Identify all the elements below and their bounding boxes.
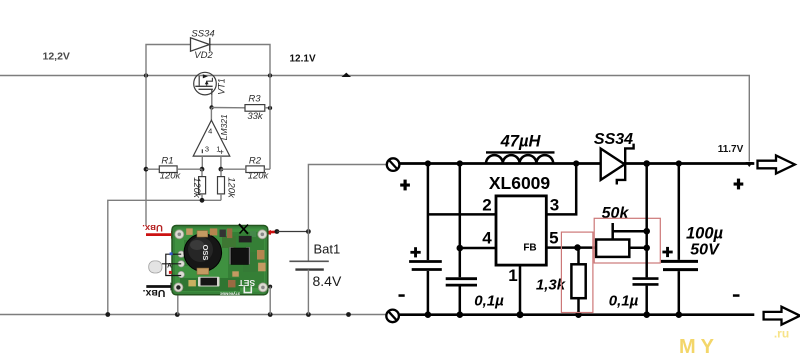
PCB left edge pads [178,251,184,278]
svg-text:Uвх.: Uвх. [143,287,166,299]
watermark MY [679,336,719,358]
node cap B bottom dot [457,311,464,318]
svg-text:R1: R1 [161,155,173,166]
wire left column [145,76,147,226]
resistor R1 [159,166,177,173]
node pin1 ground dot [517,311,524,318]
capacitor 0,1u second [633,164,659,319]
RIGHT-SECTION (thick black) [386,131,800,325]
PCB IC chip [230,236,252,265]
svg-text:5: 5 [549,229,558,248]
label minus output [733,294,740,297]
label 11.7V [718,144,744,155]
PCB tan component above toroid [197,231,208,237]
resistor R3 [245,105,265,112]
node 50k junction dots [643,228,650,251]
wire opamp output to node [210,108,212,121]
wire opamp input stubs [202,156,221,169]
svg-text:0,1µ: 0,1µ [474,293,504,310]
resistor 120k vertical A [199,169,206,200]
wire R1 left lead [146,168,159,170]
label R1 [161,155,173,166]
wire top rail thick [399,162,754,165]
label 47uH underline [486,151,555,153]
label VD2 [194,50,213,61]
label minus input [399,294,405,297]
label LM321 [219,114,229,140]
PCB pad bottom-left [174,283,183,292]
PCB SET label rotated [238,278,255,293]
connector input plus [387,158,400,171]
output arrow minus [764,307,800,325]
svg-text:SS34: SS34 [191,29,214,40]
svg-text:50k: 50k [602,205,630,222]
svg-text:8.4V: 8.4V [313,273,342,289]
svg-text:4: 4 [482,229,492,248]
label plus input [219,146,224,156]
node junction dot R3/column [268,106,272,110]
PCB pad top-right [258,230,267,239]
label R2 [249,155,262,166]
svg-text:50V: 50V [690,242,720,259]
label pin 1 [216,144,220,153]
PCB micro text [219,292,240,297]
PCB board [172,226,268,295]
op-amp LM321 triangle [193,120,230,156]
label SS34 [191,29,214,40]
node R1 junction dot [144,167,149,172]
label 12,2V [43,51,70,63]
resistor 120k vertical B [218,169,225,200]
label pin 3 [205,144,209,153]
label Bat1 [314,242,341,257]
label Uvx red (rotated) [142,222,163,233]
svg-text:Bat1: Bat1 [314,242,341,257]
red marking box 1,3k [561,232,593,312]
label 50V [690,242,720,259]
PCB bottom black inductor [198,277,220,287]
LED component [149,252,182,275]
PCB toroid inductor [184,234,222,272]
label pin2 [482,196,491,215]
wire R1 right lead [177,168,202,170]
op IC XL6009 box [496,196,546,265]
label VT1 [217,78,227,95]
label Uvx black (rotated) [143,287,166,299]
resistor R2 [246,166,264,173]
label XL6009 [489,173,551,193]
label 33k [247,111,264,122]
label pin 4 [208,127,212,136]
svg-text:SS34: SS34 [594,131,633,148]
wire pin3 [546,164,576,215]
node cap A bottom dot [425,311,432,318]
LEFT-SECTION (thin gray) [0,29,753,317]
svg-text:0,1µ: 0,1µ [609,293,639,310]
svg-text:FB: FB [523,243,536,254]
label plus input [400,180,410,191]
PCB X mark [239,224,248,234]
wire resistor bottoms to ground drop [108,200,221,314]
wire bottom ground rail thin [0,314,387,316]
battery Bat1 [289,261,328,314]
node small triangle marker on rail x346 [342,73,352,77]
PCB MODULE PHOTO [149,224,268,297]
label SS34 output [594,131,633,148]
node dot resistor A bottom [200,198,205,203]
svg-text:VD2: VD2 [194,50,213,61]
capacitor 0,1u first (line B) [446,164,477,315]
svg-text:120k: 120k [160,170,182,181]
wire R3 to right column [265,107,270,109]
label 47uH [500,132,542,150]
connector input minus [386,310,399,323]
svg-text:+: + [219,146,224,156]
resistor 50k trimmer [596,223,647,257]
wire node to R3 [212,107,245,109]
svg-text:3: 3 [205,144,209,153]
label 120k vertical A [191,177,202,199]
label pin1 [508,266,517,285]
label pin3 [550,196,559,215]
svg-text:SET: SET [238,278,255,288]
svg-text:OSS: OSS [201,245,210,261]
svg-text:12,2V: 12,2V [43,51,70,63]
svg-text:.ru: .ru [774,327,789,341]
wire mosfet drain to node [211,95,213,108]
svg-text:A: A [167,262,172,269]
wire right column [269,76,271,170]
svg-text:11.7V: 11.7V [718,144,744,155]
label 0,1u second [609,293,639,310]
wire black input arrow [146,283,179,291]
svg-text:2: 2 [482,196,491,215]
svg-text:12.1V: 12.1V [290,53,316,64]
node input dots [200,167,224,172]
svg-text:120k: 120k [226,177,237,199]
svg-text:LM321: LM321 [219,114,229,140]
svg-text:Uвх.: Uвх. [142,222,163,233]
svg-text:R2: R2 [249,155,262,166]
capacitor 100u 50V [661,164,698,319]
label pin5 [549,229,558,248]
node junction dot on rail x270 [268,73,272,77]
wire pin1 [519,265,522,315]
red marking box 50k [594,218,660,263]
label minus input tick [201,149,203,153]
label 0,1u first [474,293,504,310]
node dot pad wire [275,229,280,234]
svg-text:47µH: 47µH [500,132,542,150]
node pin4 junction dot [457,245,464,252]
resistor 1,3k [571,244,585,318]
svg-text:120k: 120k [248,170,270,181]
svg-text:зтукемвс: зтукемвс [219,292,240,297]
diode VD2 (SS34) [191,38,210,51]
svg-text:XL6009: XL6009 [489,173,551,193]
svg-text:4: 4 [208,127,212,136]
wire PCB top-right pad red stub [262,230,277,235]
label 50k [602,205,630,222]
watermark .ru [774,327,789,341]
svg-text:MY: MY [679,336,719,358]
wire PCB bottom-right pad to ground [261,285,272,315]
svg-text:1: 1 [508,266,517,285]
label plus 100u [662,247,672,257]
label 100u [686,225,724,243]
PCB pad bottom-right [258,283,267,292]
label plus output [734,179,744,190]
label 120k R2 [248,170,270,181]
transistor VT1 mosfet circle [194,72,217,95]
wire pin4 [460,247,496,250]
node ground dots [105,312,351,317]
capacitor electrolytic input (line A) [409,164,442,315]
wire PCB bottom-left pad to ground [177,289,179,315]
wire pin5 [546,246,596,249]
svg-text:3: 3 [550,196,559,215]
label 12.1V [290,53,316,64]
node small down-arrow where thin line meets output rail [746,162,754,167]
PCB tan component below toroid [197,268,209,274]
node dot battery column top [306,229,311,234]
PCB bottom components [188,280,235,287]
svg-text:33k: 33k [247,111,264,122]
label 1,3k [536,277,566,294]
diode SS34 output [601,144,634,185]
label R3 [248,94,261,105]
svg-text:120k: 120k [191,177,202,199]
PCB right side components [232,250,265,277]
wire diode VD2 branch [146,45,270,76]
svg-text:VT1: VT1 [217,78,227,95]
wire pin2 [428,213,496,216]
PCB pad top-left [175,230,184,239]
label 120k vertical B [226,177,237,199]
output arrow plus [758,156,795,174]
wire R2 leads [221,168,270,170]
wire red input arrow [146,231,180,239]
label FB [523,243,536,254]
node junction dot on rail x146 [144,73,148,77]
label 8.4V [313,273,342,289]
wire bottom rail thick [399,313,754,316]
svg-text:100µ: 100µ [686,225,724,243]
label plus cap A [410,247,420,257]
PCB top edge components [186,228,256,238]
label 120k R1 [160,170,182,181]
label pin4 [482,229,492,248]
wire top rail 12V [0,76,749,162]
node top rail dots [425,160,682,167]
wire battery plus riser [308,165,386,262]
svg-text:R3: R3 [248,94,261,105]
inductor 47uH [486,155,553,163]
wire pad to battery column [277,231,309,233]
node drain junction dot [209,105,213,109]
